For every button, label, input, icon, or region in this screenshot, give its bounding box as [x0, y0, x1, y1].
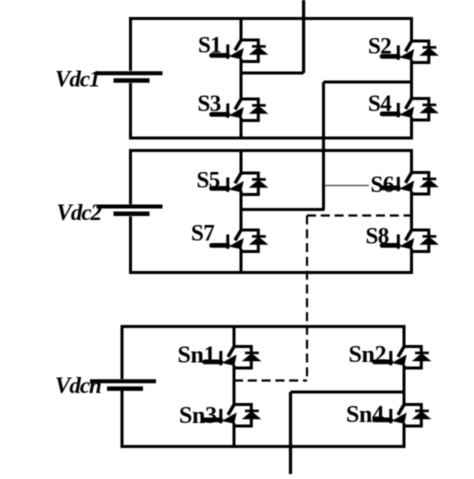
- svg-text:S3: S3: [198, 91, 221, 116]
- svg-text:S2: S2: [368, 34, 391, 59]
- svg-text:Sn4: Sn4: [346, 402, 384, 428]
- svg-text:S1: S1: [198, 33, 221, 58]
- svg-text:S8: S8: [366, 224, 389, 249]
- svg-text:S6: S6: [371, 172, 394, 197]
- svg-text:Vdcn: Vdcn: [55, 373, 101, 398]
- svg-text:Sn1: Sn1: [178, 343, 216, 369]
- svg-text:Sn3: Sn3: [179, 403, 217, 429]
- svg-text:S5: S5: [197, 168, 220, 193]
- svg-text:Vdc2: Vdc2: [57, 200, 102, 225]
- svg-text:S7: S7: [191, 221, 214, 246]
- svg-text:S4: S4: [368, 91, 392, 116]
- svg-text:Sn2: Sn2: [349, 342, 387, 368]
- svg-text:Vdc1: Vdc1: [55, 67, 100, 92]
